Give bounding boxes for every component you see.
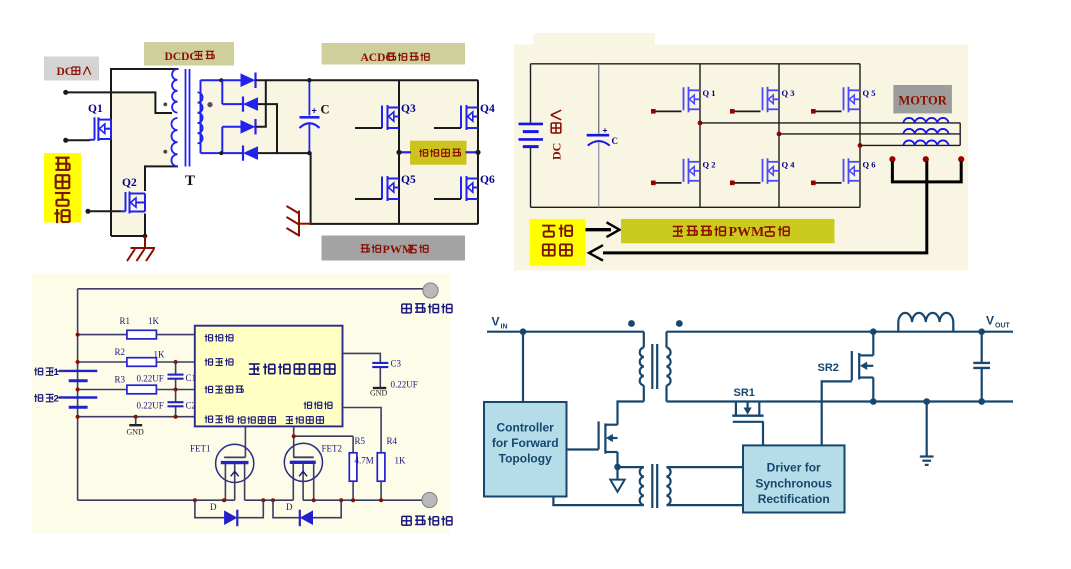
label battery1 bbox=[34, 368, 43, 376]
svg-text:T: T bbox=[185, 173, 195, 189]
wire battery2 label dash bbox=[57, 397, 66, 399]
label pin discharge-protect bbox=[237, 416, 245, 423]
wire bridge leg 2 bbox=[778, 64, 780, 208]
wire row4 bbox=[78, 416, 196, 418]
svg-text:FET1: FET1 bbox=[190, 444, 211, 454]
wire inverter bottom rail bbox=[311, 223, 478, 225]
node row3 C2 tap bbox=[174, 388, 178, 392]
ground GND2 bbox=[373, 387, 387, 389]
svg-text:4.7M: 4.7M bbox=[355, 456, 374, 466]
wire row2 left bbox=[78, 361, 128, 363]
label board title bbox=[249, 364, 260, 374]
ground output bbox=[926, 402, 928, 456]
svg-text:0.22UF: 0.22UF bbox=[137, 401, 164, 411]
label pin power-negative bbox=[304, 402, 312, 409]
arrowhead to control center bbox=[589, 245, 603, 260]
ground inverter bbox=[287, 206, 312, 237]
wire T2 secondary bottom to driver bbox=[667, 504, 744, 506]
svg-text:Q3: Q3 bbox=[401, 103, 416, 115]
svg-text:IN: IN bbox=[501, 324, 508, 331]
transistor Q6 bbox=[456, 176, 478, 201]
label ACDC-fullbridge-inverter bbox=[322, 43, 466, 65]
svg-text:GND: GND bbox=[370, 389, 388, 398]
transformer T primary lower winding bbox=[171, 118, 177, 166]
capacitor C filter bbox=[587, 134, 610, 137]
wire top rail bbox=[111, 68, 179, 70]
battery 1 bbox=[59, 370, 97, 372]
node T1 primary phasing dot bbox=[628, 320, 635, 327]
label pin battery-middle bbox=[205, 386, 213, 393]
wire rectifier secondary bus bbox=[200, 80, 202, 153]
label push-pull-control bbox=[44, 153, 81, 223]
diode D2 bbox=[242, 97, 244, 112]
svg-text:DCDC: DCDC bbox=[165, 51, 198, 63]
wire battery1 label dash bbox=[57, 370, 66, 372]
node row2 C1 tap bbox=[174, 360, 178, 364]
wire bottom rail middle bbox=[245, 499, 294, 501]
label MOTOR box bbox=[893, 85, 952, 113]
schematic 3 background bbox=[32, 273, 451, 534]
svg-text:PWM: PWM bbox=[383, 242, 414, 256]
svg-text:V: V bbox=[986, 314, 994, 328]
wire rectifier row1 bbox=[201, 79, 242, 81]
transformer T2 secondary bbox=[667, 467, 671, 505]
ground GND1 bbox=[135, 417, 137, 425]
node AC left bbox=[396, 150, 401, 155]
wire rectifier bus row1-row2 bbox=[221, 80, 223, 104]
diode D1 bbox=[241, 73, 256, 87]
wire rectifier row4 bbox=[201, 152, 244, 154]
wire Q2 gate bbox=[653, 182, 681, 184]
schematic 4 group bbox=[484, 313, 1013, 513]
transistor SR1 bbox=[732, 402, 763, 446]
transformer T1 core bbox=[651, 344, 653, 389]
transformer T2 core bbox=[651, 464, 653, 508]
wire bridge leg 1 bbox=[699, 64, 701, 208]
label DC-input bbox=[44, 57, 99, 81]
node bottom rail bbox=[312, 498, 316, 502]
battery DC source bbox=[519, 124, 544, 147]
svg-text:V: V bbox=[492, 315, 500, 329]
label pin power-positive bbox=[205, 334, 213, 341]
node SR2 source junction bbox=[870, 398, 877, 405]
transistor Q1 bbox=[90, 117, 112, 141]
node SR2 drain junction bbox=[870, 328, 877, 335]
label pin battery-negative bbox=[205, 416, 213, 423]
wire capacitor branch top bbox=[598, 64, 600, 134]
wire battery bottom lead bbox=[530, 148, 532, 208]
transistor SR2 bbox=[852, 351, 874, 381]
transistor main switch bbox=[599, 421, 618, 453]
wire Q1 gate bbox=[653, 110, 681, 112]
wire to controller bbox=[522, 332, 524, 402]
node VIN junction bbox=[520, 328, 527, 335]
diode D4 bbox=[242, 146, 244, 161]
wire Q1-Q2 vertical bbox=[110, 68, 112, 236]
svg-text:C3: C3 bbox=[391, 359, 402, 369]
wire feedback center to control bbox=[603, 161, 927, 253]
wire feedback right bbox=[927, 161, 961, 182]
transistor Q2 bbox=[684, 158, 701, 184]
svg-text:Rectification: Rectification bbox=[758, 492, 830, 506]
wire Q5 gate bbox=[355, 198, 382, 200]
wire rectifier bus row3-row4 bbox=[221, 127, 223, 153]
diode D2 bypass loop bbox=[273, 500, 300, 518]
node bottom rail bbox=[222, 498, 226, 502]
transistor FET1 bbox=[216, 444, 254, 500]
wire Q4 gate bbox=[732, 182, 760, 184]
wire source to T2 primary bbox=[618, 466, 644, 468]
transistor Q6 bbox=[844, 158, 861, 184]
driver box bbox=[743, 445, 845, 512]
label output-negative bbox=[402, 516, 411, 525]
wire Q6 gate bbox=[434, 198, 461, 200]
svg-text:0.22UF: 0.22UF bbox=[137, 374, 164, 384]
wire row2 to vertical bbox=[258, 104, 277, 153]
battery 2 bbox=[59, 396, 97, 398]
wire Q3 gate bbox=[732, 110, 760, 112]
wire Q5 gate bbox=[813, 110, 841, 112]
wire power-negative to R4 bbox=[343, 408, 382, 453]
protection board box bbox=[195, 326, 343, 427]
wire inverter middle leg bbox=[398, 80, 400, 224]
wire phase C to motor bbox=[860, 144, 960, 146]
svg-text:Q1: Q1 bbox=[88, 103, 103, 115]
svg-text:R3: R3 bbox=[115, 375, 126, 385]
transistor Q5 bbox=[377, 176, 399, 201]
wire output positive rail bbox=[78, 288, 424, 290]
wire row4 to inverter bbox=[258, 152, 312, 154]
wire C3 branch bbox=[343, 353, 381, 362]
svg-text:+: + bbox=[603, 125, 608, 135]
svg-text:R2: R2 bbox=[115, 347, 126, 357]
svg-text:D: D bbox=[210, 502, 217, 512]
capacitor output bbox=[981, 332, 983, 363]
resistor R5 bbox=[352, 436, 354, 453]
svg-text:1K: 1K bbox=[395, 456, 407, 466]
svg-text:Q 4: Q 4 bbox=[782, 160, 796, 170]
ground push-pull bbox=[127, 236, 155, 261]
svg-text:DC: DC bbox=[57, 66, 74, 78]
label DCDC-boost bbox=[144, 42, 234, 66]
wire Q3 gate bbox=[355, 127, 382, 129]
label pin charge-protect bbox=[286, 417, 293, 424]
label fullbridge-PWM-control bbox=[322, 236, 466, 261]
svg-text:MOTOR: MOTOR bbox=[898, 94, 947, 108]
transistor Q1 bbox=[684, 87, 701, 113]
node source junction bbox=[614, 464, 621, 471]
svg-text:Q 1: Q 1 bbox=[703, 88, 716, 98]
wire secondary return bbox=[667, 400, 1014, 402]
resistor R3 bbox=[127, 385, 156, 394]
svg-text:SR1: SR1 bbox=[734, 387, 755, 399]
wire phase B to motor bbox=[779, 133, 960, 135]
svg-text:Q2: Q2 bbox=[122, 177, 137, 189]
wire drain to primary bbox=[618, 402, 644, 425]
wire DC input 2 to Q1 gate bbox=[63, 138, 68, 143]
wire input rail bbox=[487, 331, 644, 333]
node motor terminal 2 bbox=[923, 156, 929, 162]
transistor FET2 bbox=[284, 443, 322, 500]
svg-text:R5: R5 bbox=[355, 436, 366, 446]
svg-text:Q 5: Q 5 bbox=[863, 88, 876, 98]
wire row1 output to top rail bbox=[256, 79, 479, 81]
transistor Q3 bbox=[377, 105, 399, 130]
wire bottom bbox=[111, 235, 146, 237]
wire feedback left bbox=[892, 161, 926, 182]
wire row1 left bbox=[78, 334, 128, 336]
node phase 3 bbox=[858, 143, 863, 148]
wire row2 right bbox=[156, 361, 195, 363]
label DC-input vertical bbox=[550, 110, 564, 160]
svg-text:DC: DC bbox=[550, 143, 564, 160]
svg-text:Q 6: Q 6 bbox=[863, 160, 876, 170]
resistor R2 bbox=[127, 358, 156, 367]
transformer T secondary winding bbox=[198, 92, 203, 143]
node bottom rail bbox=[339, 498, 343, 502]
wire SR2 source bbox=[872, 378, 874, 402]
svg-text:Controller: Controller bbox=[497, 421, 555, 435]
capacitor C3 bbox=[372, 362, 388, 364]
node cap bottom junction bbox=[978, 398, 985, 405]
wire rectifier row3 bbox=[222, 126, 241, 128]
svg-text:1K: 1K bbox=[148, 316, 160, 326]
wire bus top bbox=[531, 63, 861, 65]
svg-text:D: D bbox=[286, 502, 293, 512]
wire bridge leg 3 bbox=[859, 64, 861, 208]
transistor Q3 bbox=[763, 87, 780, 113]
wire source to gnd node bbox=[616, 452, 618, 470]
svg-text:C: C bbox=[321, 103, 330, 117]
svg-text:FET2: FET2 bbox=[322, 444, 343, 454]
terminal output positive bbox=[423, 283, 438, 298]
svg-text:Q 2: Q 2 bbox=[703, 160, 716, 170]
svg-text:+: + bbox=[312, 106, 317, 116]
label output-positive bbox=[402, 304, 411, 313]
wire AC output left bbox=[399, 151, 411, 153]
wire SR2 drain bbox=[872, 332, 874, 356]
wire inverter right rail bbox=[477, 80, 479, 224]
node primary dot lower bbox=[163, 150, 167, 154]
wire bottom rail left bbox=[78, 499, 235, 501]
node primary dot upper bbox=[163, 103, 167, 107]
svg-text:1K: 1K bbox=[154, 350, 166, 360]
label battery2 bbox=[34, 394, 43, 402]
node bottom rail bbox=[193, 498, 197, 502]
wire row1 right bbox=[156, 334, 195, 336]
svg-text:0.22UF: 0.22UF bbox=[391, 380, 418, 390]
svg-text:PWM: PWM bbox=[729, 225, 765, 240]
capacitor C2 bbox=[175, 390, 177, 402]
transformer T1 primary bbox=[643, 332, 645, 348]
diode D3 bbox=[241, 120, 256, 134]
wire row3 up to row1 bbox=[256, 80, 266, 127]
wire row3 right bbox=[156, 389, 195, 391]
svg-text:R1: R1 bbox=[120, 316, 131, 326]
wire arrow to PWM bbox=[586, 228, 612, 231]
node motor terminal 1 bbox=[889, 156, 895, 162]
capacitor C bbox=[308, 80, 310, 115]
resistor R4 bbox=[377, 453, 385, 481]
node row1 bus bbox=[76, 333, 80, 337]
motor winding 2 bbox=[903, 129, 948, 134]
wire bus bottom bbox=[531, 206, 861, 208]
wire DC input 3 to Q2 gate bbox=[86, 209, 91, 214]
node phase 1 bbox=[698, 121, 703, 126]
svg-text:SR2: SR2 bbox=[818, 362, 839, 374]
node row4 gnd tap bbox=[134, 415, 138, 419]
wire battery top lead bbox=[530, 64, 532, 123]
resistor R1 bbox=[127, 330, 156, 339]
node row3 bus bbox=[76, 388, 80, 392]
terminal output negative bbox=[422, 492, 437, 507]
wire T2 secondary top to driver bbox=[667, 466, 744, 468]
node secondary dot bbox=[207, 102, 212, 107]
svg-text:1: 1 bbox=[54, 367, 60, 378]
node row4 c tap bbox=[174, 415, 178, 419]
wire bottom rail right bbox=[303, 499, 423, 501]
schematic 2 background bbox=[514, 45, 968, 271]
transformer T core bbox=[185, 69, 187, 167]
wire AC output right bbox=[466, 151, 479, 153]
svg-text:R4: R4 bbox=[387, 436, 398, 446]
node bottom rail bbox=[379, 498, 383, 502]
svg-text:C: C bbox=[612, 136, 619, 146]
wire Q2 drain to transformer bbox=[145, 166, 178, 191]
svg-text:for Forward: for Forward bbox=[492, 436, 559, 450]
transistor Q4 bbox=[763, 158, 780, 184]
transformer T1 secondary bbox=[665, 332, 667, 348]
node AC right bbox=[475, 150, 480, 155]
svg-text:Topology: Topology bbox=[499, 452, 552, 466]
wire output rail top bbox=[667, 331, 1014, 333]
label AC-output bbox=[410, 141, 467, 165]
wire row3 left bbox=[78, 389, 128, 391]
node VOUT junction bbox=[978, 328, 985, 335]
wire controller to gate bbox=[567, 448, 599, 450]
wire SR2 gate to driver bbox=[822, 381, 852, 445]
transformer T primary upper winding bbox=[172, 69, 177, 113]
schematic 1 background regions bbox=[111, 93, 172, 236]
node Q2 source junction bbox=[143, 234, 148, 239]
transformer T2 primary bbox=[640, 467, 644, 505]
label three-phase-PWM-control box bbox=[621, 219, 835, 243]
svg-text:GND: GND bbox=[127, 428, 145, 437]
wire Q6 gate bbox=[813, 182, 841, 184]
svg-text:Q 3: Q 3 bbox=[782, 88, 795, 98]
controller box bbox=[484, 402, 567, 497]
node bottom rail bbox=[271, 498, 275, 502]
ground arrow open triangle bbox=[616, 470, 618, 479]
transistor Q5 bbox=[844, 87, 861, 113]
wire Q4 gate bbox=[434, 127, 461, 129]
wire inverter left edge bbox=[310, 153, 312, 225]
node row4 bus bbox=[76, 415, 80, 419]
inductor output bbox=[897, 322, 899, 332]
wire left bus bbox=[77, 289, 79, 500]
node row2 bus bbox=[76, 360, 80, 364]
wire T2 primary bottom to controller bbox=[553, 497, 643, 506]
svg-text:Q6: Q6 bbox=[480, 174, 495, 186]
svg-text:Q5: Q5 bbox=[401, 174, 416, 186]
wire Q2 source bbox=[144, 214, 146, 237]
label control-center box bbox=[530, 219, 586, 266]
motor winding 1 bbox=[903, 118, 948, 123]
svg-text:Driver for: Driver for bbox=[767, 461, 821, 475]
svg-text:2: 2 bbox=[54, 394, 59, 405]
svg-text:OUT: OUT bbox=[995, 323, 1011, 330]
label pin battery-positive bbox=[205, 358, 213, 365]
wire DC input 1 with center tap bbox=[63, 90, 68, 95]
wire rectifier row2 bbox=[222, 103, 243, 105]
node bottom rail bbox=[351, 498, 355, 502]
diode D1 bypass loop bbox=[195, 500, 225, 518]
wire capacitor branch bottom bbox=[598, 143, 600, 208]
transistor Q4 bbox=[456, 105, 478, 130]
node T1 secondary phasing dot bbox=[676, 320, 683, 327]
transistor Q2 bbox=[121, 192, 146, 214]
node bottom rail bbox=[261, 498, 265, 502]
wire motor star point bbox=[959, 123, 961, 145]
node motor terminal 3 bbox=[958, 156, 964, 162]
motor winding 3 bbox=[903, 140, 948, 145]
node ground tap bbox=[923, 398, 930, 405]
capacitor C1 bbox=[175, 362, 177, 374]
svg-text:Q4: Q4 bbox=[480, 103, 495, 115]
wire phase A to motor bbox=[700, 122, 960, 124]
wire charge-protect to FET2 gate and R5 bbox=[293, 426, 295, 457]
svg-text:Synchronous: Synchronous bbox=[755, 477, 832, 491]
node phase 2 bbox=[777, 132, 782, 137]
wire discharge-protect to FET1 gate bbox=[244, 426, 246, 457]
